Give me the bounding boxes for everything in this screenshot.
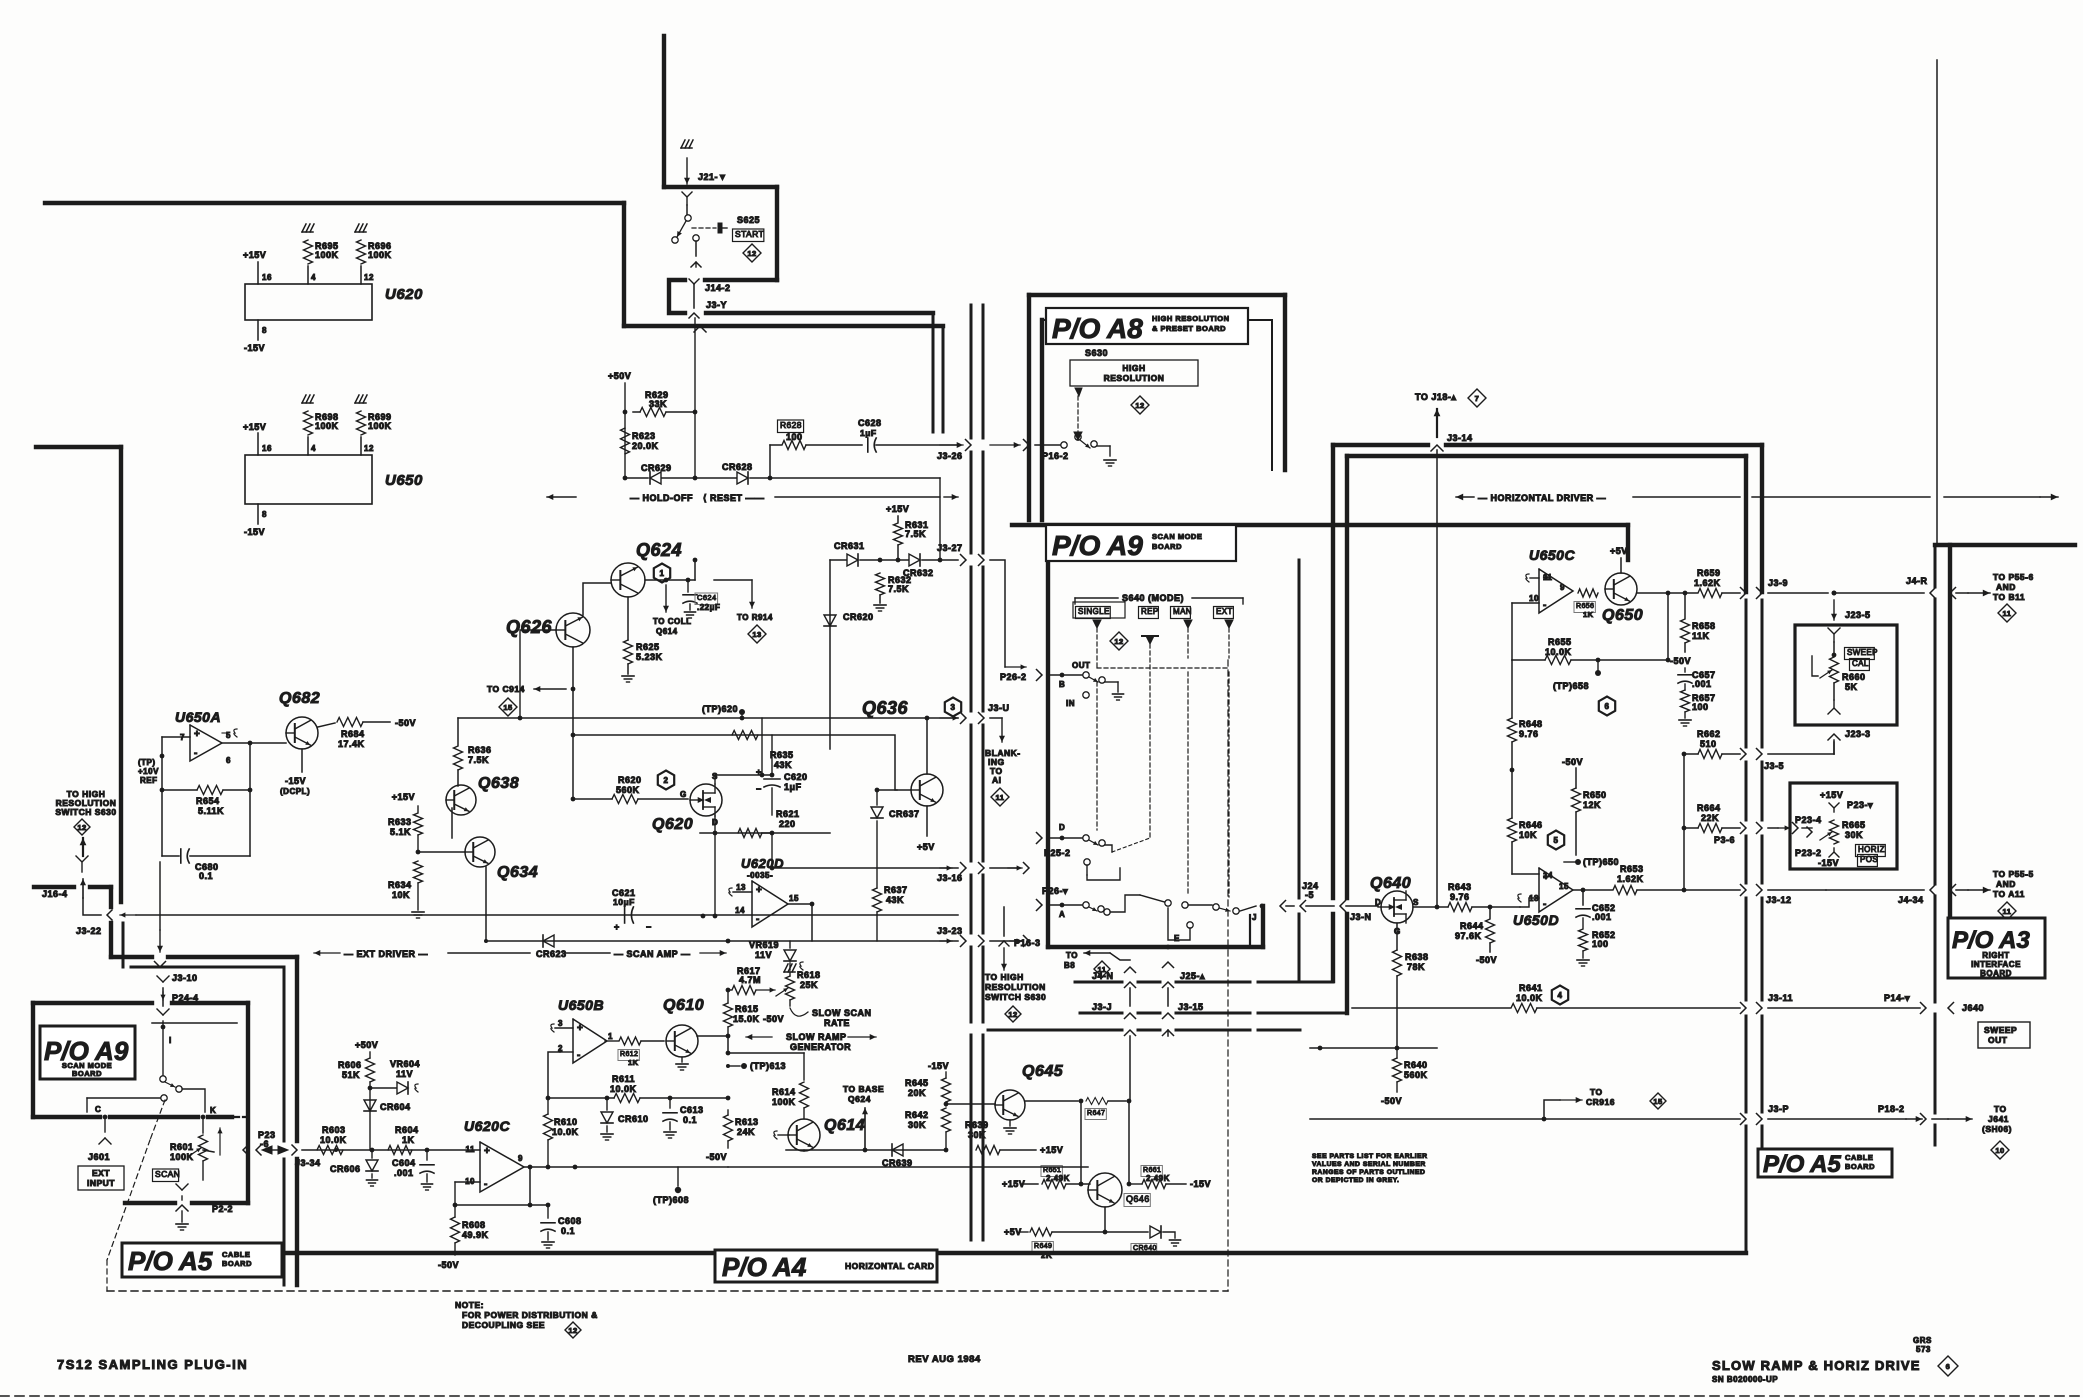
resistor R615 15.0K: [724, 990, 760, 1036]
connector to P55-6: [1950, 572, 2034, 622]
svg-text:BOARD: BOARD: [1845, 1162, 1875, 1171]
svg-text:-50V: -50V: [395, 718, 416, 728]
svg-text:4: 4: [311, 444, 316, 453]
svg-text:R633: R633: [388, 817, 412, 827]
svg-text:C628: C628: [858, 418, 882, 428]
wire J3-9 to J4-R: [1832, 576, 1936, 599]
svg-text:HORIZ: HORIZ: [1858, 845, 1885, 854]
svg-text:TO HIGH: TO HIGH: [985, 972, 1024, 982]
svg-text:+50V: +50V: [355, 1040, 378, 1050]
connector J3-9: [1741, 578, 1829, 599]
svg-text:30K: 30K: [908, 1120, 926, 1130]
svg-text:P16-3: P16-3: [1014, 938, 1041, 948]
resistor R653 1.62K: [1613, 864, 1740, 895]
svg-text:J3-J: J3-J: [1092, 1002, 1112, 1012]
bus A5 top edge: [125, 1201, 248, 1205]
wire Q640 gate: [1396, 923, 1398, 950]
svg-text:TO: TO: [1066, 951, 1078, 960]
resistor R664 22K: [1684, 803, 1740, 845]
connector J3-Y: [689, 300, 727, 318]
bus column J24 x1299: [1298, 560, 1301, 982]
svg-text:100: 100: [786, 432, 803, 442]
transistor Q640 FET: [1370, 875, 1437, 936]
svg-text:EXT: EXT: [92, 1168, 110, 1178]
resistor R699 100K: [355, 395, 392, 435]
svg-text:S630: S630: [1085, 348, 1108, 358]
svg-text:OR DEPICTED IN GREY.: OR DEPICTED IN GREY.: [1312, 1177, 1399, 1184]
svg-text:13: 13: [736, 883, 746, 892]
arrow to C914: [487, 684, 566, 716]
svg-text:+: +: [756, 767, 762, 777]
label P16-2: [1042, 451, 1069, 461]
resistor R620 560K: [571, 775, 688, 804]
svg-text:BOARD: BOARD: [1980, 969, 2012, 978]
svg-text:Q636: Q636: [862, 698, 909, 718]
svg-text:TO BASE: TO BASE: [843, 1084, 884, 1094]
svg-text:HIGH: HIGH: [1122, 363, 1145, 373]
resistor R641 10.0K: [1352, 983, 1740, 1013]
pin 12 U620: [361, 266, 374, 284]
wire U650D output: [1573, 888, 1612, 893]
wire vertical from J3-Y to CR row: [694, 318, 696, 478]
svg-text:S: S: [712, 772, 718, 781]
svg-text:CABLE: CABLE: [222, 1250, 250, 1259]
svg-text:(TP)658: (TP)658: [1553, 681, 1589, 691]
svg-text:R665: R665: [1842, 820, 1866, 830]
svg-text:P/O A5: P/O A5: [128, 1246, 213, 1276]
diamond 12 at S625: [743, 244, 761, 262]
svg-text:−: −: [756, 784, 762, 794]
resistor R652 100: [1577, 918, 1616, 966]
svg-text:P/O A4: P/O A4: [722, 1252, 807, 1282]
svg-text:10K: 10K: [1519, 830, 1537, 840]
wire bus corner vertical x624: [622, 203, 626, 326]
svg-text:16: 16: [262, 273, 272, 282]
connector to P55-5: [1950, 869, 2034, 920]
svg-text:J3-U: J3-U: [988, 703, 1010, 713]
svg-text:97.6K: 97.6K: [1455, 931, 1482, 941]
hexagon 5: [1548, 831, 1564, 850]
svg-text:-15V: -15V: [244, 343, 265, 353]
svg-text:0.1: 0.1: [199, 871, 213, 881]
op-amp U650A: [175, 709, 237, 765]
svg-text:R648: R648: [1519, 719, 1543, 729]
svg-text:Q645: Q645: [1022, 1063, 1064, 1080]
svg-text:Q620: Q620: [652, 816, 693, 833]
connector J24-5 row: [1280, 881, 1378, 922]
svg-text:Q614: Q614: [656, 627, 678, 636]
svg-text:AI: AI: [992, 775, 1002, 785]
svg-text:510: 510: [1700, 739, 1717, 749]
svg-text:220: 220: [779, 819, 796, 829]
resistor R629 33K: [623, 390, 698, 417]
svg-text:P23-4: P23-4: [1795, 815, 1822, 825]
connector P3-6 row: [1741, 823, 1813, 834]
svg-text:CR629: CR629: [641, 463, 672, 473]
wire long scan line y915: [136, 914, 958, 916]
switch button MAN: [1171, 607, 1192, 619]
svg-text:⟨: ⟨: [703, 493, 707, 503]
svg-text:43K: 43K: [886, 895, 904, 905]
svg-text:J3-16: J3-16: [937, 873, 963, 883]
test point +10V REF: [138, 758, 159, 785]
svg-text:TO C914: TO C914: [487, 684, 525, 694]
blanking arrow: [985, 718, 1021, 806]
svg-text:J601: J601: [88, 1152, 110, 1162]
svg-text:CR637: CR637: [889, 809, 920, 819]
S640 plungers and dashed linkages: [1093, 620, 1233, 897]
arrow to CR916: [1544, 1087, 1666, 1119]
svg-text:R628: R628: [780, 420, 802, 430]
bus row J3-J J3-15 dashed: [1080, 1002, 1347, 1019]
svg-text:R615: R615: [735, 1004, 759, 1014]
svg-text:SCAN MODE: SCAN MODE: [1152, 532, 1202, 541]
resistor R623 20.0K: [621, 428, 659, 454]
slow ramp generator label: [746, 1032, 876, 1052]
svg-text:C604: C604: [392, 1158, 416, 1168]
wire vertical x1684 mid: [1682, 752, 1687, 890]
S625 start-switch enclosure: [664, 187, 777, 313]
svg-text:0.1: 0.1: [561, 1226, 575, 1236]
transistor Q620 FET: [652, 772, 722, 833]
wire Q650 output row J3-9: [1637, 591, 1697, 596]
svg-text:7S12 SAMPLING PLUG-IN: 7S12 SAMPLING PLUG-IN: [57, 1357, 248, 1372]
svg-text:15: 15: [789, 894, 799, 903]
wire bus left vertical x121: [119, 447, 123, 902]
svg-text:24K: 24K: [737, 1127, 755, 1137]
svg-text:R655: R655: [1548, 637, 1572, 647]
svg-text:560K: 560K: [1404, 1070, 1428, 1080]
ext driver scan amp labels: [314, 949, 726, 959]
dashed EXT feature vertical: [1227, 660, 1229, 1291]
connector J3-14: [1431, 433, 1473, 451]
svg-text:5.11K: 5.11K: [198, 806, 224, 816]
resistor R656 1K boxed: [1574, 589, 1598, 619]
svg-text:NOTE:: NOTE:: [455, 1300, 484, 1310]
svg-text:-50V: -50V: [438, 1260, 459, 1270]
svg-text:-: -: [1543, 899, 1547, 910]
potentiometer R618 25K: [756, 970, 821, 1024]
svg-text:CR623: CR623: [536, 949, 567, 959]
svg-text:.001: .001: [1692, 679, 1712, 689]
svg-text:OUT: OUT: [1072, 661, 1090, 670]
svg-text:100: 100: [1692, 702, 1709, 712]
slow scan rate label: [790, 1008, 872, 1028]
svg-text:R636: R636: [468, 745, 492, 755]
svg-text:VR604: VR604: [390, 1059, 420, 1069]
wire Q646 emitter: [1103, 1207, 1108, 1234]
svg-text:-: -: [1543, 600, 1547, 611]
svg-text:100: 100: [1592, 939, 1609, 949]
transistor Q610: [663, 997, 704, 1070]
svg-text:R610: R610: [554, 1117, 578, 1127]
svg-text:AND: AND: [1996, 879, 2016, 889]
svg-text:-15V: -15V: [928, 1061, 949, 1071]
svg-text:100K: 100K: [315, 250, 339, 260]
svg-text:R664: R664: [1697, 803, 1721, 813]
note power distribution: [455, 1300, 598, 1338]
resistor R610 10.0K: [544, 1098, 579, 1169]
svg-text:7.5K: 7.5K: [468, 755, 489, 765]
svg-text:D: D: [1059, 823, 1065, 832]
svg-text:6: 6: [226, 756, 231, 765]
resistor R637 43K: [873, 821, 908, 941]
svg-text:9: 9: [518, 1154, 523, 1163]
pin 4 U620: [308, 266, 316, 284]
svg-text:+: +: [756, 885, 762, 896]
svg-text:2.49K: 2.49K: [1146, 1174, 1170, 1183]
svg-text:SLOW RAMP & HORIZ DRIVE: SLOW RAMP & HORIZ DRIVE: [1712, 1358, 1921, 1373]
rake ground R618 top: [784, 964, 796, 976]
svg-text:+: +: [484, 1146, 490, 1157]
capacitor C604 .001: [392, 1150, 434, 1190]
svg-text:CABLE: CABLE: [1845, 1153, 1873, 1162]
svg-text:100K: 100K: [772, 1097, 796, 1107]
wire Q682 emitter -15V: [280, 749, 310, 796]
svg-text:R662: R662: [1697, 729, 1721, 739]
test point TP608: [653, 1167, 689, 1205]
svg-text:(SH06): (SH06): [1982, 1124, 2012, 1134]
wire J21 vertical stub: [662, 36, 666, 187]
svg-text:-: -: [577, 1050, 581, 1061]
svg-text:R647: R647: [1087, 1110, 1105, 1117]
svg-text:49.9K: 49.9K: [462, 1230, 489, 1240]
svg-text:-15V: -15V: [285, 776, 306, 786]
svg-text:-15V: -15V: [1190, 1179, 1211, 1189]
svg-text:R621: R621: [776, 809, 800, 819]
zener VR619 11V: [749, 940, 803, 970]
resistor R662 510: [1684, 729, 1740, 759]
svg-text:S: S: [1413, 898, 1419, 907]
label EXT INPUT: [78, 1166, 124, 1190]
svg-text:J3-23: J3-23: [937, 926, 963, 936]
svg-text:7.5K: 7.5K: [905, 529, 926, 539]
svg-text:10K: 10K: [392, 890, 410, 900]
connector J3-5: [1741, 742, 1835, 771]
svg-text:33K: 33K: [649, 399, 667, 409]
svg-text:J641: J641: [1988, 1114, 2009, 1124]
svg-text:R651: R651: [1043, 1167, 1061, 1174]
op-amp U650C: [1526, 547, 1576, 613]
wire U620C input row: [302, 1148, 480, 1153]
diode CR637: [871, 788, 920, 819]
svg-text:RESOLUTION: RESOLUTION: [1104, 373, 1165, 383]
svg-text:4: 4: [311, 273, 316, 282]
svg-text:1K: 1K: [402, 1135, 415, 1145]
to high resolution switch label: [55, 789, 116, 856]
svg-text:SLOW SCAN: SLOW SCAN: [812, 1008, 872, 1018]
svg-text:R660: R660: [1842, 672, 1866, 682]
svg-text:11K: 11K: [1692, 631, 1710, 641]
resistor R646 10K: [1508, 818, 1543, 874]
bus right outer frame: [1935, 545, 2075, 1145]
svg-text:TO A11: TO A11: [1993, 889, 2025, 899]
rev aug 1984: [908, 1354, 981, 1365]
resistor R638 78K: [1393, 950, 1429, 1050]
svg-text:100K: 100K: [368, 250, 392, 260]
node K: [201, 1106, 217, 1119]
bottom edge dashes: [0, 1395, 2083, 1397]
resistor R645 20K: [905, 1061, 951, 1106]
to high resolution switch label right: [985, 972, 1046, 1022]
svg-text:1μF: 1μF: [784, 782, 802, 792]
wire bus left y447: [36, 445, 121, 449]
transistor Q682: [222, 690, 320, 749]
resistor R647 boxed grey: [1025, 1098, 1131, 1120]
svg-text:HORIZONTAL CARD: HORIZONTAL CARD: [845, 1261, 934, 1271]
svg-text:START: START: [735, 229, 764, 239]
svg-text:J: J: [1252, 913, 1257, 922]
svg-text:+15V: +15V: [1820, 790, 1843, 800]
connector to J641: [1921, 1104, 2012, 1159]
potentiometer R601 100K: [170, 1117, 223, 1180]
wire J3-P row: [1310, 1117, 1740, 1122]
svg-text:R659: R659: [1697, 568, 1721, 578]
svg-text:J3-15: J3-15: [1178, 1002, 1204, 1012]
resistor R631 7.5K: [886, 504, 929, 560]
resistor R649 2K boxed: [1004, 1227, 1105, 1260]
svg-text:RESOLUTION: RESOLUTION: [985, 982, 1046, 992]
svg-text:1: 1: [660, 569, 665, 578]
svg-text:Q624: Q624: [636, 540, 682, 560]
wire J3-16 row: [770, 833, 1029, 874]
bus column J3 left pair: [971, 305, 983, 1240]
svg-text:16: 16: [262, 444, 272, 453]
svg-text:K: K: [210, 1106, 216, 1115]
svg-text:30K: 30K: [968, 1130, 986, 1140]
svg-text:TO J18-▴: TO J18-▴: [1415, 392, 1456, 402]
svg-text:10μF: 10μF: [613, 897, 635, 907]
pin 8 -15V U620: [244, 320, 267, 353]
svg-text:P/O A3: P/O A3: [1952, 927, 2030, 954]
svg-text:R608: R608: [462, 1220, 486, 1230]
svg-text:15.0K: 15.0K: [733, 1014, 760, 1024]
svg-text:6: 6: [1946, 1362, 1951, 1371]
svg-text:R614: R614: [772, 1087, 796, 1097]
transistor Q646: [1088, 1173, 1150, 1207]
svg-text:43K: 43K: [774, 760, 792, 770]
svg-text:— SCAN AMP —: — SCAN AMP —: [614, 949, 691, 959]
pin 16 +15V U650: [243, 422, 272, 455]
svg-text:1: 1: [608, 1032, 613, 1041]
wire J3-27 row: [937, 543, 984, 566]
svg-text:REF: REF: [140, 776, 158, 785]
svg-text:5: 5: [1554, 836, 1559, 845]
svg-text:J3-22: J3-22: [76, 926, 102, 936]
see parts list note: [1312, 1153, 1428, 1184]
bus corner J16-4 nest outer: [111, 887, 297, 1285]
resistor R659 1.62K: [1694, 568, 1740, 598]
svg-text:12: 12: [364, 273, 374, 282]
wire bus horizontal y326 to J3 column: [624, 326, 943, 432]
svg-text:5K: 5K: [1845, 682, 1858, 692]
svg-text:P16-2: P16-2: [1042, 451, 1069, 461]
svg-text:U620C: U620C: [464, 1118, 510, 1134]
resistor R658 11K: [1670, 593, 1716, 666]
title block P/O A9 left: [40, 1026, 135, 1079]
svg-text:CR628: CR628: [722, 462, 753, 472]
svg-text:-: -: [484, 1179, 488, 1190]
svg-text:4.7M: 4.7M: [739, 975, 761, 985]
hexagon 1: [654, 564, 670, 583]
svg-text:+: +: [614, 922, 620, 932]
connector P24-4: [160, 992, 198, 1003]
resistor R614 100K: [728, 1053, 809, 1119]
connector fork on S625 stem: [682, 192, 692, 205]
connector J23-3: [1828, 729, 1871, 754]
svg-text:U650A: U650A: [175, 709, 221, 725]
svg-text:20.0K: 20.0K: [632, 441, 659, 451]
connector J21 arrow: [684, 158, 727, 184]
svg-text:& PRESET BOARD: & PRESET BOARD: [1152, 324, 1226, 333]
svg-text:11: 11: [2003, 907, 2012, 916]
svg-text:100K: 100K: [368, 421, 392, 431]
connector J640 sweep out: [1921, 1003, 2031, 1049]
svg-text:J25-▴: J25-▴: [1180, 971, 1205, 981]
svg-text:P2-2: P2-2: [212, 1204, 233, 1214]
capacitor C628 1uF: [858, 418, 958, 452]
pin 16 +15V U620: [243, 250, 272, 284]
svg-text:P/O A9: P/O A9: [1052, 530, 1143, 561]
svg-text:Q614: Q614: [824, 1117, 865, 1134]
diode CR606: [330, 1150, 378, 1186]
arrow to J18: [1415, 389, 1486, 437]
dashed bottom border: [107, 1290, 1228, 1292]
svg-text:(TP): (TP): [138, 758, 156, 767]
switch row B OUT/IN: [1037, 661, 1124, 708]
resistor R632 7.5K: [874, 573, 912, 611]
svg-text:P26-2: P26-2: [1000, 672, 1027, 682]
svg-text:10.0K: 10.0K: [1516, 993, 1543, 1003]
svg-text:10.0K: 10.0K: [1545, 647, 1572, 657]
wire U620C output row: [524, 1165, 806, 1170]
switch button EXT: [1214, 607, 1234, 619]
svg-text:TO: TO: [1994, 1104, 2007, 1114]
switch scan mode left: [87, 1027, 205, 1112]
wire U620D output: [788, 902, 814, 941]
dashed feature line bottom left: [107, 1100, 165, 1291]
title 7S12 sampling plug-in: [57, 1357, 248, 1372]
svg-text:G: G: [680, 790, 687, 799]
switch button SINGLE: [1073, 602, 1125, 619]
svg-text:100K: 100K: [315, 421, 339, 431]
svg-text:.22μF: .22μF: [697, 603, 720, 612]
svg-text:DECOUPLING SEE: DECOUPLING SEE: [462, 1320, 545, 1330]
switch button REP: [1139, 607, 1159, 619]
zener VR604 11V: [370, 1059, 420, 1094]
svg-text:AND: AND: [1996, 582, 2016, 592]
op-amp U620C: [464, 1118, 524, 1192]
svg-text:-: -: [194, 748, 198, 759]
label HORIZ POS: [1856, 845, 1886, 867]
svg-text:R604: R604: [395, 1125, 419, 1135]
connector J601: [88, 1117, 111, 1162]
svg-text:R658: R658: [1692, 621, 1716, 631]
svg-text:-: -: [756, 914, 760, 925]
svg-text:-50V: -50V: [706, 1152, 727, 1162]
connector J3-U: [940, 703, 1010, 724]
svg-text:10.0K: 10.0K: [552, 1127, 579, 1137]
wire Q640 source row: [1435, 905, 1448, 910]
svg-text:P18-2: P18-2: [1878, 1104, 1905, 1114]
switch row A P26: [1037, 886, 1265, 940]
diode CR631: [830, 541, 880, 566]
bus J3-14 inner line: [1347, 456, 1746, 1013]
svg-text:15: 15: [1653, 1097, 1662, 1106]
capacitor C657 .001: [1678, 668, 1716, 689]
svg-text:12: 12: [77, 823, 86, 832]
bus row A9 bottom dashed: [988, 1030, 1300, 1101]
